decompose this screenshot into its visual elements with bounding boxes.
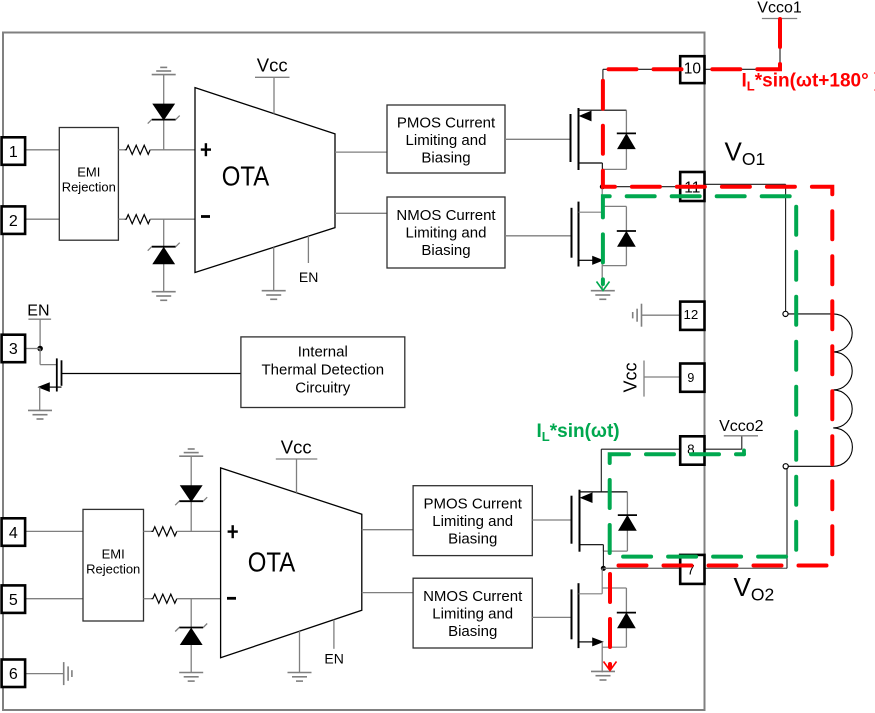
svg-text:Limiting and: Limiting and	[406, 224, 487, 241]
svg-text:Limiting and: Limiting and	[406, 132, 487, 149]
svg-text:Limiting and: Limiting and	[432, 605, 513, 622]
svg-text:9: 9	[687, 371, 694, 385]
svg-text:EN: EN	[299, 269, 318, 285]
svg-text:EMI: EMI	[102, 547, 125, 562]
svg-text:Biasing: Biasing	[421, 242, 470, 259]
svg-text:IL*sin(ωt): IL*sin(ωt)	[537, 421, 620, 444]
svg-text:Circuitry: Circuitry	[295, 380, 350, 397]
svg-text:Vcc: Vcc	[257, 55, 288, 76]
svg-text:Limiting and: Limiting and	[432, 513, 513, 530]
svg-text:Vcco1: Vcco1	[757, 0, 802, 17]
svg-text:IL*sin(ωt+180° ): IL*sin(ωt+180° )	[742, 71, 875, 94]
svg-text:Rejection: Rejection	[62, 180, 116, 195]
svg-text:3: 3	[9, 341, 18, 358]
svg-text:EN: EN	[324, 651, 343, 667]
svg-text:1: 1	[9, 144, 18, 161]
svg-text:OTA: OTA	[222, 160, 270, 191]
svg-text:Vcc: Vcc	[281, 437, 312, 458]
svg-text:Vcc: Vcc	[621, 362, 641, 392]
svg-text:Thermal Detection: Thermal Detection	[262, 362, 385, 379]
svg-text:Biasing: Biasing	[421, 150, 470, 167]
svg-text:2: 2	[9, 213, 18, 230]
svg-text:PMOS Current: PMOS Current	[424, 495, 523, 512]
svg-text:EN: EN	[27, 303, 49, 320]
svg-text:NMOS Current: NMOS Current	[423, 588, 523, 605]
svg-text:Vcco2: Vcco2	[719, 418, 764, 435]
svg-text:OTA: OTA	[248, 546, 296, 577]
svg-text:5: 5	[9, 592, 18, 609]
svg-text:Rejection: Rejection	[86, 562, 140, 577]
svg-text:PMOS Current: PMOS Current	[397, 115, 496, 132]
svg-text:6: 6	[9, 666, 18, 683]
svg-text:NMOS Current: NMOS Current	[396, 207, 496, 224]
svg-text:Biasing: Biasing	[448, 530, 497, 547]
svg-text:12: 12	[683, 307, 698, 322]
svg-text:Internal: Internal	[298, 344, 348, 361]
svg-text:Biasing: Biasing	[448, 623, 497, 640]
svg-text:4: 4	[9, 525, 18, 542]
svg-text:10: 10	[684, 61, 702, 78]
svg-text:EMI: EMI	[77, 165, 100, 180]
